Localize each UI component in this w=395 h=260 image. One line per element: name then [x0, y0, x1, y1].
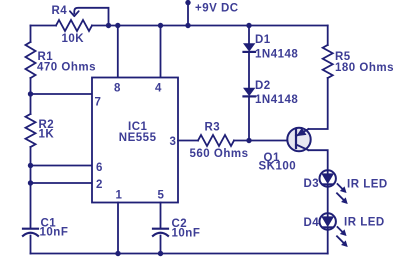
- svg-text:8: 8: [114, 83, 121, 95]
- wire bottom rail: [31, 253, 328, 255]
- svg-text:3: 3: [170, 136, 176, 148]
- wire collector to LED column: [309, 150, 328, 170]
- diode D2: [244, 88, 256, 96]
- wire D1 to D2: [248, 53, 250, 89]
- R4 wiper arrow: [70, 8, 109, 26]
- junction dot C2-rail: [158, 251, 163, 256]
- potentiometer R4: [56, 20, 92, 31]
- wire D4 to rail: [327, 230, 329, 254]
- wire R3 to base: [234, 140, 289, 142]
- wire top rail left: [31, 25, 57, 27]
- svg-text:6: 6: [96, 162, 102, 174]
- svg-text:D1: D1: [255, 34, 271, 46]
- svg-text:5: 5: [158, 190, 165, 202]
- svg-text:NE555: NE555: [119, 132, 157, 144]
- wire C1 to rail: [30, 236, 32, 254]
- junction dot pin4-rail: [158, 23, 163, 28]
- junction dot pin8-rail: [115, 23, 120, 28]
- svg-text:IR LED: IR LED: [347, 179, 388, 191]
- wire pin 8: [117, 26, 119, 78]
- svg-text:1: 1: [116, 190, 123, 202]
- svg-text:D3: D3: [304, 178, 320, 190]
- junction dot 9V-rail: [185, 23, 190, 28]
- wire pin 2: [31, 182, 93, 184]
- wire rail to D1: [248, 26, 250, 45]
- LED D4: [320, 213, 336, 229]
- svg-text:R3: R3: [205, 122, 221, 134]
- junction dot pin6 node: [28, 163, 33, 168]
- junction dot D1-rail: [246, 23, 251, 28]
- wire R5 to emitter: [309, 78, 328, 129]
- svg-text:SK100: SK100: [259, 161, 297, 173]
- svg-text:10nF: 10nF: [172, 228, 201, 240]
- svg-text:1N4148: 1N4148: [255, 49, 298, 61]
- wire D2 to base node: [248, 97, 250, 141]
- diode D1: [244, 44, 256, 52]
- svg-text:560 Ohms: 560 Ohms: [190, 148, 249, 160]
- svg-text:1N4148: 1N4148: [255, 94, 298, 106]
- wire left vertical top: [30, 26, 32, 43]
- svg-text:D4: D4: [304, 217, 320, 229]
- junction dot base node: [246, 138, 251, 143]
- resistor R1: [26, 42, 36, 78]
- svg-text:4: 4: [155, 83, 162, 95]
- +9V DC terminal: [185, 0, 190, 26]
- wire pin 7: [31, 93, 93, 95]
- svg-text:180 Ohms: 180 Ohms: [335, 62, 394, 74]
- D3 emission arrows: [337, 184, 347, 203]
- wire pin 6: [31, 165, 93, 167]
- svg-text:2: 2: [96, 179, 102, 191]
- wire D3 to D4: [327, 187, 329, 214]
- transistor Q1: [287, 128, 310, 151]
- capacitor C2: [153, 229, 168, 236]
- wire pin 4: [160, 26, 162, 78]
- svg-text:10nF: 10nF: [40, 227, 69, 239]
- svg-text:R4: R4: [52, 5, 68, 17]
- junction dot pin7 node: [28, 91, 33, 96]
- wire R2 to pin6 node: [30, 147, 32, 166]
- resistor R5: [323, 45, 333, 78]
- svg-text:D2: D2: [255, 80, 271, 92]
- svg-text:+9V DC: +9V DC: [195, 3, 239, 15]
- svg-text:7: 7: [95, 97, 101, 109]
- wire top rail right: [92, 25, 328, 27]
- junction dot pin1-rail: [115, 251, 120, 256]
- wire pin 3: [178, 140, 198, 142]
- junction dot pin2 node: [28, 180, 33, 185]
- svg-text:1K: 1K: [39, 129, 55, 141]
- resistor R3: [198, 135, 234, 146]
- D4 emission arrows: [337, 227, 347, 246]
- junction dot wiper-rail: [106, 23, 111, 28]
- wire R1-R2: [30, 94, 32, 114]
- svg-text:IR LED: IR LED: [344, 217, 385, 229]
- wire C2 to rail: [160, 236, 162, 254]
- wire pin 5: [160, 203, 162, 228]
- wire rail to R5: [327, 26, 329, 46]
- resistor R2: [26, 114, 36, 147]
- capacitor C1: [23, 229, 38, 236]
- svg-text:10K: 10K: [62, 33, 85, 45]
- wire pin6 to pin2 node: [30, 166, 32, 184]
- wire R1 to pin7 node: [30, 78, 32, 94]
- IC U1 NE555 body: [92, 78, 178, 203]
- wire node to C1: [30, 183, 32, 228]
- svg-text:470 Ohms: 470 Ohms: [37, 62, 96, 74]
- LED D3: [320, 170, 336, 186]
- wire pin 1: [117, 203, 119, 254]
